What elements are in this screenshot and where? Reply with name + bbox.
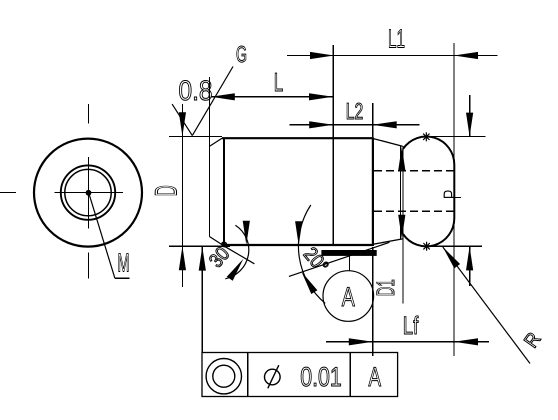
- tangent star bottom: [422, 242, 431, 251]
- extension line x=372.7 lower: [372, 247, 374, 356]
- chamfer diagonal top: [209, 138, 222, 146]
- datum balloon circle: [323, 271, 374, 322]
- nose taper top: [373, 139, 403, 147]
- tangent star top: [422, 132, 431, 141]
- nose taper bottom: [373, 239, 403, 244]
- dimension P line bottom segment: [469, 246, 471, 286]
- hidden line upper: [374, 170, 454, 172]
- dimension D line: [181, 104, 183, 287]
- surface finish symbol left arm: [172, 104, 192, 136]
- angle 30 arc: [225, 225, 248, 279]
- body bottom edge: [222, 244, 373, 246]
- ball outline: [403, 137, 454, 247]
- feature control frame leader arrow: [199, 247, 206, 271]
- dimension P bottom arrow: [466, 246, 473, 270]
- left view center dot: [86, 190, 92, 196]
- svg-text:D1: D1: [372, 279, 400, 296]
- datum feature bar: [321, 250, 376, 256]
- feature control frame divider 1: [247, 353, 249, 397]
- left view outer circle: [34, 139, 142, 247]
- body top edge: [222, 137, 373, 139]
- leader M diagonal: [89, 193, 115, 278]
- svg-text:L2: L2: [346, 98, 364, 124]
- extension line stub x=372.7 upper: [372, 103, 374, 137]
- concentricity symbol inner circle: [213, 365, 235, 387]
- extension line y=136.4 left: [169, 135, 222, 137]
- dimension L right arrow: [309, 93, 333, 100]
- left view inner circle: [65, 169, 111, 215]
- svg-text:D: D: [149, 185, 184, 196]
- dimension L2 left arrow: [309, 121, 333, 128]
- left view vertical centerline dash 2: [87, 157, 89, 228]
- left view horizontal centerline dash 1: [0, 192, 16, 194]
- feature control frame leader: [201, 247, 203, 353]
- svg-text:M: M: [118, 248, 130, 278]
- svg-text:0.01: 0.01: [300, 362, 342, 392]
- svg-text:R: R: [520, 329, 545, 352]
- extension line y=246.2 left: [169, 245, 230, 247]
- chamfer diagonal bottom: [209, 237, 222, 246]
- dimension L line: [211, 96, 333, 98]
- svg-text:A: A: [342, 282, 355, 312]
- dimension Lf line: [326, 341, 489, 343]
- dimension Lf right arrow: [454, 338, 478, 345]
- left view middle circle: [61, 165, 115, 219]
- leader R arrow: [443, 247, 460, 268]
- feature control frame box: [202, 353, 398, 397]
- dimension D top arrow: [179, 112, 186, 136]
- dimension D bottom arrow: [179, 246, 186, 270]
- neck edge line: [400, 146, 402, 239]
- dimension D1 top arrow: [398, 147, 405, 171]
- svg-text:L1: L1: [388, 24, 405, 54]
- dimension L1 left arrow: [310, 52, 334, 59]
- angle 20 arc: [298, 205, 325, 303]
- dimension L1 right arrow: [454, 52, 478, 59]
- extension line y=136.5 right: [426, 136, 485, 138]
- dimension L left arrow: [211, 93, 235, 100]
- dimension D1 bottom arrow: [398, 215, 405, 239]
- leader M underline: [115, 277, 130, 279]
- hidden line lower: [374, 210, 454, 212]
- svg-text:Lf: Lf: [403, 312, 419, 340]
- surface finish symbol long arm and G leader: [192, 67, 233, 136]
- label P tick line: [454, 196, 461, 198]
- svg-text:0.8: 0.8: [179, 75, 213, 106]
- svg-text:L: L: [274, 67, 284, 97]
- datum balloon leader: [349, 256, 351, 271]
- angle 20 bottom arrow: [302, 272, 318, 294]
- extension line x=209.4: [208, 77, 210, 146]
- dimension L1 line: [287, 55, 498, 57]
- dimension Lf left arrow: [349, 338, 373, 345]
- label P rotated (drawn): [444, 191, 454, 197]
- svg-text:G: G: [236, 41, 247, 67]
- left view vertical centerline dash 3: [87, 253, 89, 279]
- left view vertical centerline dash 1: [87, 104, 89, 123]
- body chamfer vertical line: [223, 138, 225, 245]
- dimension P line top segment: [469, 95, 471, 137]
- dimension L2 right arrow: [373, 121, 397, 128]
- body left edge: [208, 146, 210, 236]
- left view horizontal centerline dash 2: [55, 192, 124, 194]
- dimension P top arrow: [466, 113, 473, 137]
- body right edge: [372, 137, 374, 246]
- angle 30 top arrow: [243, 221, 250, 245]
- dimension L2 line: [289, 124, 419, 126]
- body internal vertical line and extension x=333: [332, 45, 334, 245]
- angle 30 extension line: [223, 245, 255, 264]
- svg-text:20°: 20°: [299, 244, 333, 278]
- leader R line: [443, 247, 530, 364]
- extension line x=454: [453, 43, 455, 356]
- angle 30 bottom arrow: [227, 259, 244, 281]
- concentricity symbol outer circle: [206, 359, 241, 394]
- diameter symbol: [265, 365, 281, 388]
- feature control frame divider 2: [349, 353, 351, 397]
- svg-text:30°: 30°: [205, 238, 239, 272]
- svg-text:A: A: [368, 362, 381, 392]
- angle 20 top arrow: [295, 221, 302, 245]
- angle 20 line: [289, 242, 390, 276]
- extension line y=246.2 right: [427, 245, 482, 247]
- dimension D1 line: [402, 146, 404, 303]
